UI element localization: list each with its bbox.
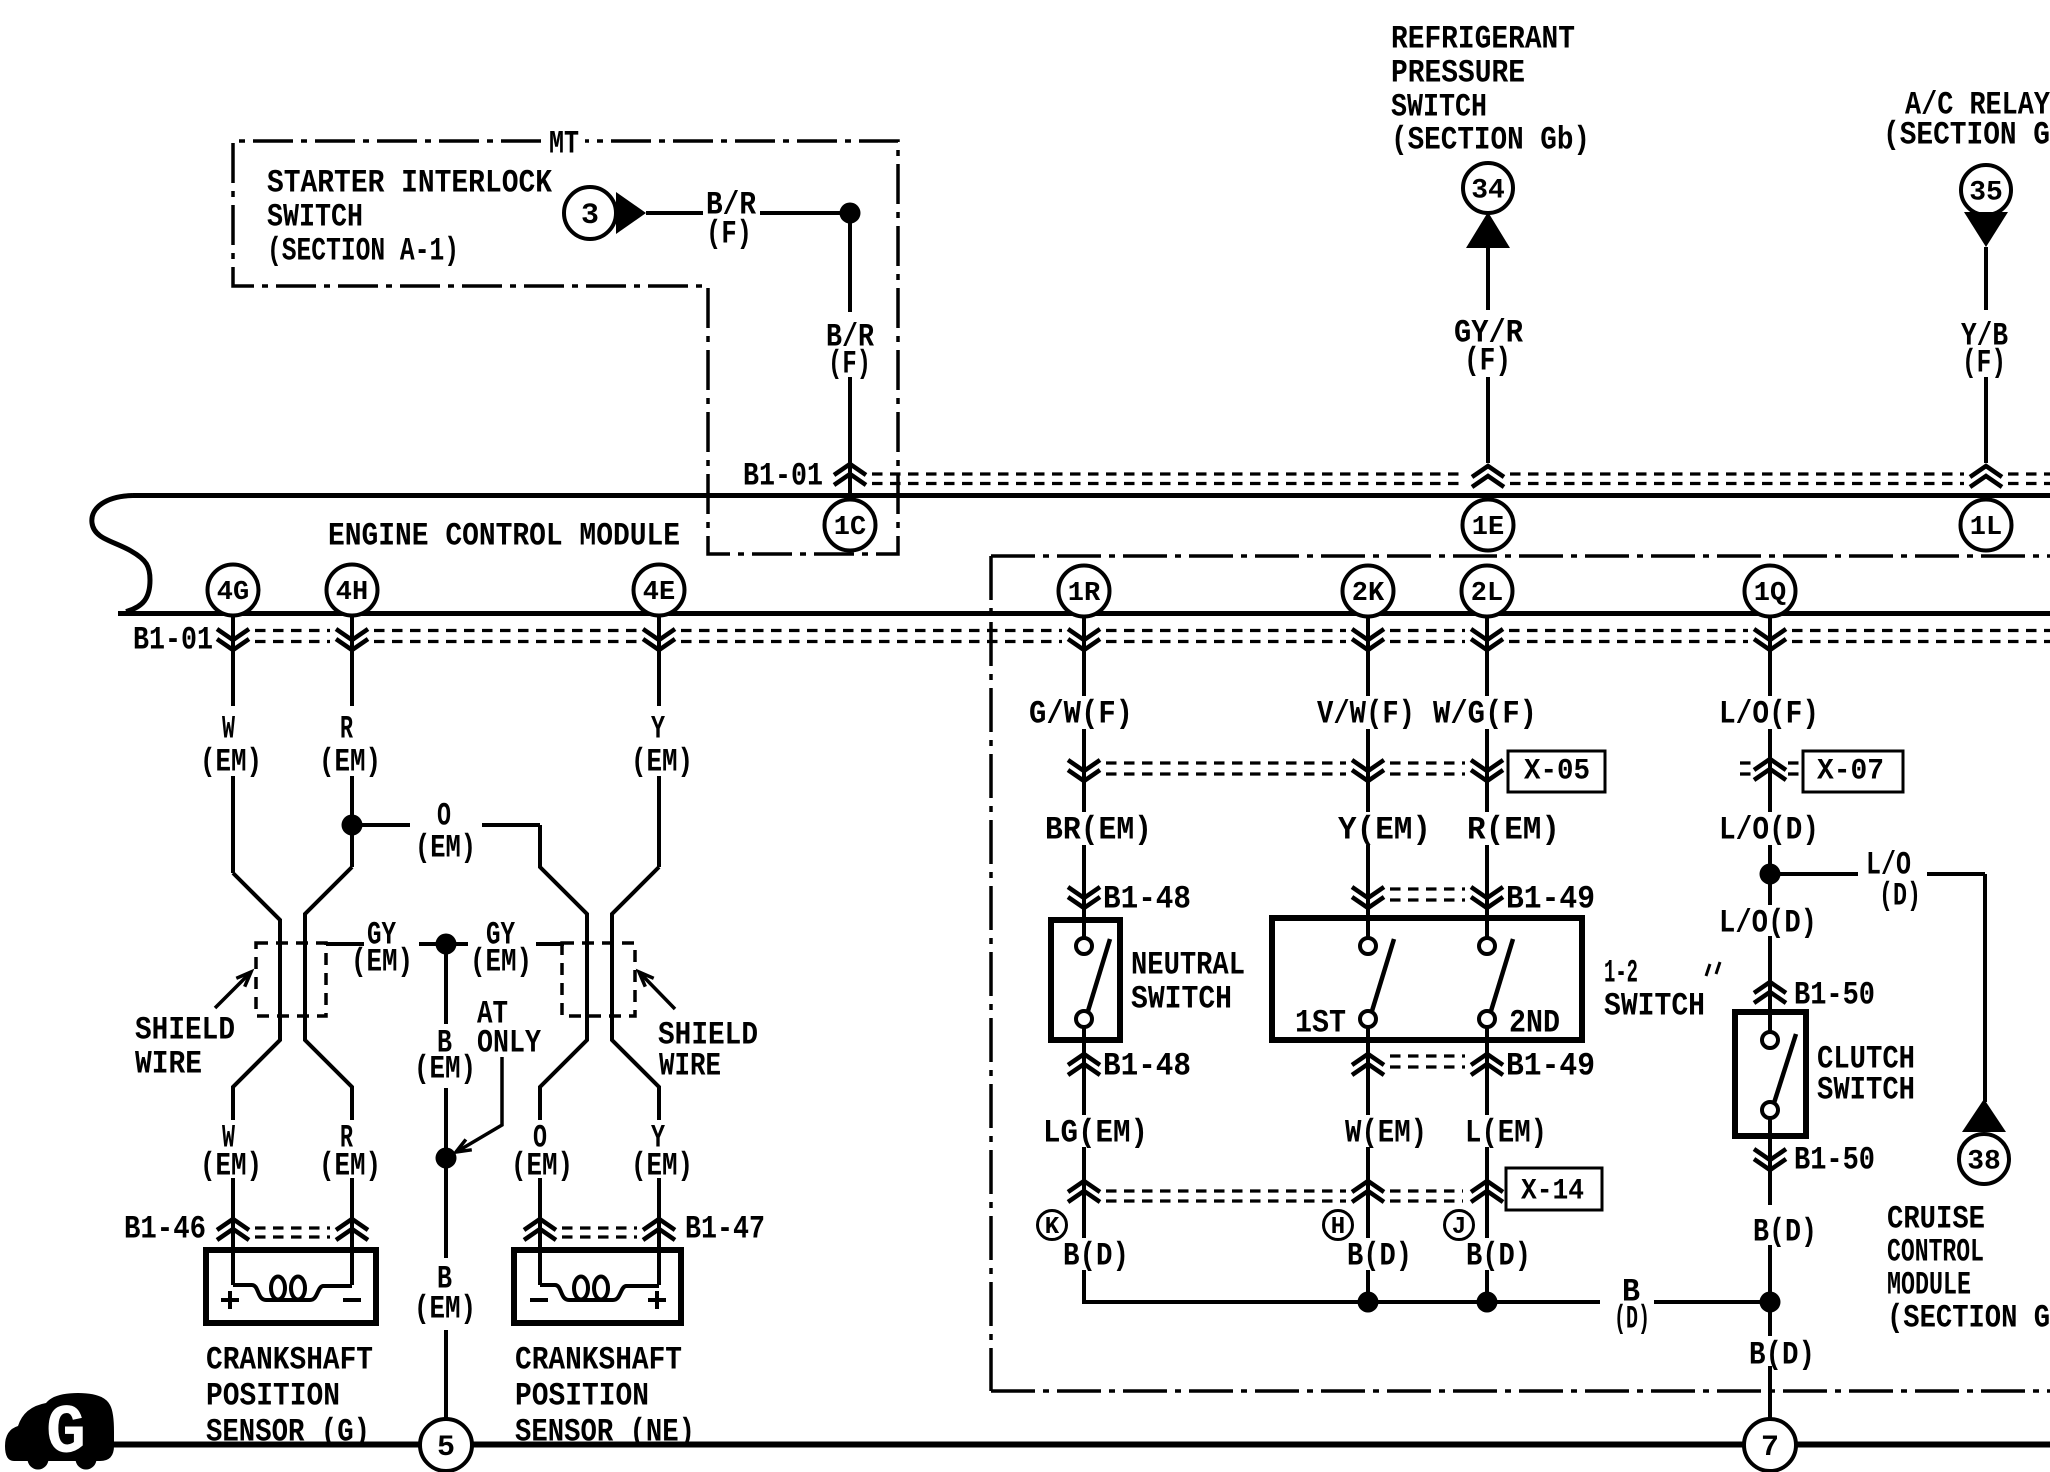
svg-text:L(EM): L(EM) [1465, 1115, 1547, 1152]
svg-text:(F): (F) [828, 346, 871, 383]
wire L (EM) below 1-2 switch [1485, 1027, 1489, 1115]
svg-text:WIRE: WIRE [659, 1048, 721, 1085]
svg-text:ONLY: ONLY [477, 1025, 542, 1062]
svg-text:1-2: 1-2 [1604, 955, 1638, 992]
B1-01 in-line connector dashed rows (lower) [255, 629, 330, 632]
wire L/O(D) down to clutch switch [1768, 936, 1772, 1012]
svg-text:(EM): (EM) [631, 744, 693, 781]
wire Y from 4E [657, 616, 661, 706]
svg-text:NEUTRAL: NEUTRAL [1131, 947, 1245, 984]
svg-text:1C: 1C [834, 513, 866, 543]
junction node B(D) at W wire [1358, 1292, 1379, 1313]
svg-text:B(D): B(D) [1347, 1238, 1412, 1275]
svg-text:W(EM): W(EM) [1345, 1115, 1427, 1152]
junction node GY/B [436, 934, 457, 955]
svg-text:Y(EM): Y(EM) [1338, 812, 1431, 849]
svg-text:35: 35 [1969, 178, 2003, 209]
connector chevrons B1-49 upper [1352, 887, 1384, 908]
svg-text:CRANKSHAFT: CRANKSHAFT [206, 1342, 373, 1379]
svg-text:L/O(D): L/O(D) [1719, 812, 1819, 849]
transmission switches dash-dot boundary box [991, 556, 2050, 1391]
wire W (EM) below 1-2 switch [1366, 1027, 1370, 1115]
junction node B(D) at L wire [1477, 1292, 1498, 1313]
connector chevron B1-48 lower [1068, 1054, 1100, 1075]
engine control module bus (bottom rail) [118, 611, 2050, 616]
connector circle 35 [1961, 165, 2011, 215]
svg-text:(EM): (EM) [511, 1148, 573, 1185]
crankshaft position sensor (NE) box [514, 1250, 681, 1323]
wire L/O (D) branch to cruise control [1778, 872, 1858, 876]
sensor (NE) polarity marks - and + [530, 1298, 548, 1302]
svg-text:R(EM): R(EM) [1467, 812, 1560, 849]
svg-text:(SECTION G: (SECTION G [1883, 117, 2050, 154]
svg-text:B1-01: B1-01 [133, 622, 213, 659]
svg-text:B1-49: B1-49 [1506, 1048, 1595, 1085]
svg-text:2L: 2L [1471, 579, 1503, 609]
junction node B/R [840, 203, 861, 224]
svg-text:W/G(F): W/G(F) [1433, 696, 1537, 733]
MT dash-dot boundary box [233, 141, 898, 554]
ground node 5 [420, 1419, 472, 1471]
svg-text:X-07: X-07 [1817, 754, 1884, 788]
wire G/W-BR from 1R to neutral switch [1082, 616, 1086, 696]
svg-text:B(D): B(D) [1063, 1238, 1129, 1275]
wire O branch [352, 823, 410, 827]
B1-49 upper dashed rows [1390, 887, 1465, 890]
wire GY/R down to 1E [1486, 248, 1490, 310]
arrow head (up) above connector 38 [1962, 1099, 2006, 1132]
svg-text:34: 34 [1471, 176, 1505, 207]
ECM pin 1L [1961, 500, 2012, 551]
svg-text:(SECTION A-1): (SECTION A-1) [267, 233, 459, 270]
connector chevrons B1-47 [524, 1219, 556, 1240]
svg-text:1ST: 1ST [1295, 1005, 1346, 1042]
clutch switch contacts and blade [1762, 1032, 1778, 1048]
svg-text:4H: 4H [336, 578, 368, 608]
ECM pin 4G [208, 565, 259, 616]
junction node B(D) at clutch wire [1760, 1292, 1781, 1313]
X-07 dashed stubs [1740, 761, 1752, 764]
svg-text:(EM): (EM) [470, 944, 532, 981]
arrow head (up) below connector 34 [1466, 212, 1510, 248]
svg-text:POSITION: POSITION [206, 1378, 340, 1415]
svg-text:B1-50: B1-50 [1794, 977, 1875, 1014]
svg-text:B(D): B(D) [1753, 1214, 1817, 1251]
wire GY crossbar [326, 942, 364, 946]
svg-text:(EM): (EM) [200, 1148, 262, 1185]
junction node AT-only on B wire [436, 1148, 457, 1169]
1-2 switch 1ST contact and blade [1360, 938, 1376, 954]
connector chevrons B1-49 lower [1352, 1054, 1384, 1075]
junction node L/O(D) [1760, 864, 1781, 885]
svg-text:(EM): (EM) [631, 1148, 693, 1185]
ECM pin 2K [1343, 566, 1394, 617]
svg-text:V/W(F): V/W(F) [1317, 696, 1415, 733]
svg-text:STARTER INTERLOCK: STARTER INTERLOCK [267, 165, 553, 202]
connector chevron B1-50 lower [1754, 1149, 1786, 1170]
svg-text:(EM): (EM) [415, 830, 476, 867]
connector circle 3 [564, 187, 616, 239]
wire LG (EM) below neutral switch [1082, 1027, 1086, 1115]
pin circle H [1324, 1211, 1353, 1240]
svg-text:X-05: X-05 [1524, 754, 1590, 788]
svg-text:G/W(F): G/W(F) [1029, 696, 1133, 733]
connector chevron X-07 [1754, 759, 1786, 780]
svg-text:5: 5 [437, 1431, 455, 1465]
svg-text:W: W [222, 711, 236, 748]
B1-47 dashed rows [562, 1226, 637, 1229]
ground symbol G (car icon) [5, 1393, 114, 1461]
wire R from 4H [350, 616, 354, 706]
svg-text:(EM): (EM) [351, 944, 413, 981]
connector chevron B1-01 at 1E [1472, 466, 1504, 487]
ECM pin 1R [1059, 566, 1110, 617]
svg-text:1E: 1E [1472, 513, 1504, 543]
left shield wire dashed box [256, 943, 326, 1016]
svg-text:(D): (D) [1879, 878, 1921, 915]
svg-text:1Q: 1Q [1754, 579, 1786, 609]
connector circle 38 [1959, 1134, 2009, 1184]
svg-text:7: 7 [1761, 1431, 1779, 1465]
stray scan mark after 1-2 SWITCH [1706, 962, 1720, 976]
svg-text:SWITCH: SWITCH [267, 199, 363, 236]
svg-text:R: R [340, 711, 354, 748]
wire B (EM) middle down [444, 944, 448, 1024]
svg-text:MT: MT [549, 126, 579, 163]
svg-text:H: H [1331, 1214, 1345, 1241]
svg-text:(SECTION Gb): (SECTION Gb) [1391, 122, 1590, 159]
connector chevron X-05 at Y wire [1352, 760, 1384, 781]
wire B (EM) to ground node 5 [444, 1158, 448, 1258]
svg-text:SHIELD: SHIELD [135, 1012, 235, 1049]
wire W/G-R from 2L to 1-2 switch [1485, 616, 1489, 696]
sensor (G) polarity marks + and - [221, 1298, 239, 1302]
svg-text:SWITCH: SWITCH [1817, 1072, 1915, 1109]
svg-text:CRANKSHAFT: CRANKSHAFT [515, 1342, 682, 1379]
ECM pin 2L [1462, 566, 1513, 617]
ECM pin 1C [825, 500, 876, 551]
B1-46 dashed rows [255, 1226, 330, 1229]
svg-text:SWITCH: SWITCH [1391, 89, 1487, 126]
svg-text:G: G [46, 1395, 86, 1472]
svg-text:X-14: X-14 [1521, 1174, 1584, 1208]
svg-text:Y: Y [651, 711, 666, 748]
connector chevron B1-50 upper [1754, 982, 1786, 1003]
svg-text:K: K [1045, 1214, 1060, 1241]
junction node on R wire [342, 815, 363, 836]
crankshaft position sensor (G) box [206, 1250, 376, 1323]
connector chevrons B1-46 [217, 1219, 249, 1240]
connector chevron B1-01 at 1C [834, 464, 866, 485]
X-14 boxed label [1506, 1168, 1602, 1210]
svg-text:MODULE: MODULE [1887, 1267, 1971, 1304]
right shield wire dashed box [562, 943, 635, 1016]
X-05 dashed rows [1106, 761, 1346, 764]
svg-text:B1-49: B1-49 [1506, 881, 1595, 918]
wire W from 4G [231, 616, 235, 706]
svg-text:(EM): (EM) [414, 1291, 476, 1328]
neutral switch box [1051, 920, 1120, 1040]
svg-text:1L: 1L [1970, 513, 2002, 543]
wire B (D) below clutch switch [1768, 1136, 1772, 1205]
svg-text:L/O(F): L/O(F) [1719, 696, 1819, 733]
svg-text:4E: 4E [643, 578, 675, 608]
arrow head at connector 3 [616, 192, 646, 234]
sensor (G) coil [231, 1252, 235, 1285]
svg-text:(F): (F) [706, 216, 752, 253]
svg-text:B(D): B(D) [1466, 1238, 1531, 1275]
svg-text:(EM): (EM) [200, 744, 262, 781]
X-05 boxed label [1508, 751, 1605, 792]
svg-text:4G: 4G [217, 578, 249, 608]
svg-text:PRESSURE: PRESSURE [1391, 55, 1525, 92]
svg-text:POSITION: POSITION [515, 1378, 649, 1415]
svg-text:BR(EM): BR(EM) [1045, 812, 1152, 849]
connector chevron X-05 at R wire [1471, 760, 1503, 781]
svg-text:B1-46: B1-46 [124, 1211, 206, 1248]
svg-text:B1-50: B1-50 [1794, 1142, 1875, 1179]
pin circle J [1445, 1211, 1474, 1240]
ECM pin 4H [327, 565, 378, 616]
wire B (D) common run [1084, 1300, 1600, 1304]
clutch switch box [1735, 1012, 1806, 1136]
svg-text:(D): (D) [1614, 1301, 1650, 1338]
connector chevron X-05 at BR wire [1068, 760, 1100, 781]
connector chevron B1-48 upper [1068, 887, 1100, 908]
svg-text:(F): (F) [1962, 345, 2006, 382]
svg-text:REFRIGERANT: REFRIGERANT [1391, 21, 1575, 58]
svg-text:B1-48: B1-48 [1103, 1048, 1191, 1085]
wire Y/B down to 1L [1984, 247, 1988, 310]
wire B/R down to 1C [848, 213, 852, 312]
connector chevron B1-01 at 1L [1970, 466, 2002, 487]
ECM pin 1E [1463, 500, 1514, 551]
engine control module bus (top rail) [133, 493, 2050, 498]
connector chevrons X-14 [1068, 1181, 1100, 1202]
svg-text:(EM): (EM) [319, 1148, 381, 1185]
svg-text:1R: 1R [1068, 579, 1101, 609]
svg-text:(SECTION G: (SECTION G [1887, 1300, 2050, 1337]
wire L/O from 1Q [1768, 616, 1772, 696]
wire B/R from connector 3 [646, 211, 703, 215]
B1-01 in-line connector dashed rows (upper) [872, 472, 1466, 475]
svg-text:38: 38 [1967, 1147, 2001, 1178]
ground node 7 [1744, 1419, 1796, 1471]
svg-text:B1-48: B1-48 [1103, 881, 1191, 918]
neutral switch contacts and blade [1076, 938, 1092, 954]
svg-text:B1-01: B1-01 [743, 458, 823, 495]
1-2 switch box [1272, 918, 1582, 1040]
wire V/W-Y from 2K to 1-2 switch [1366, 616, 1370, 696]
svg-text:B1-47: B1-47 [685, 1211, 765, 1248]
X-14 dashed rows [1106, 1189, 1346, 1192]
svg-text:(F): (F) [1464, 343, 1511, 380]
svg-text:B(D): B(D) [1749, 1337, 1815, 1374]
svg-text:(EM): (EM) [414, 1051, 476, 1088]
sensor (NE) coil [538, 1252, 542, 1285]
svg-text:CRUISE: CRUISE [1887, 1201, 1985, 1238]
svg-text:CONTROL: CONTROL [1887, 1234, 1984, 1271]
svg-text:(EM): (EM) [319, 744, 381, 781]
ECM pin 1Q [1745, 566, 1796, 617]
1-2 switch 2ND contact and blade [1479, 938, 1495, 954]
engine control module torn-edge squiggle (left end) [92, 496, 150, 612]
svg-text:SWITCH: SWITCH [1604, 988, 1705, 1025]
svg-text:2K: 2K [1352, 579, 1385, 609]
B1-49 lower dashed rows [1390, 1054, 1465, 1057]
pin circle K [1038, 1211, 1067, 1240]
svg-text:SWITCH: SWITCH [1131, 981, 1232, 1018]
svg-text:WIRE: WIRE [135, 1046, 202, 1083]
arrow head (down) below connector 35 [1964, 212, 2008, 247]
svg-text:J: J [1452, 1214, 1466, 1241]
ECM pin 4E [634, 565, 685, 616]
ground bus rail [113, 1442, 2050, 1448]
connector circle 34 [1463, 163, 1513, 213]
connector chevrons B1-01 row below bottom rail [217, 629, 249, 650]
svg-text:3: 3 [581, 199, 599, 233]
svg-text:2ND: 2ND [1509, 1005, 1560, 1042]
svg-text:LG(EM): LG(EM) [1043, 1115, 1148, 1152]
X-07 boxed label [1803, 751, 1903, 792]
svg-text:ENGINE CONTROL MODULE: ENGINE CONTROL MODULE [328, 518, 680, 555]
